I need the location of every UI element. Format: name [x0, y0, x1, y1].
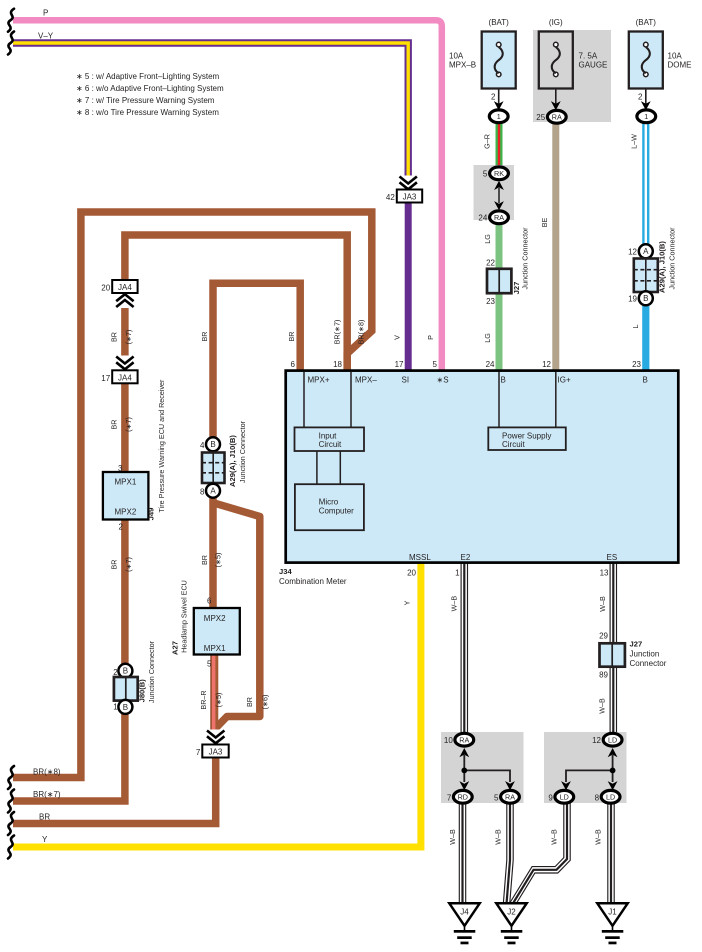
svg-text:∗ 8 : w/o Tire Pressure Warnin: ∗ 8 : w/o Tire Pressure Warning System: [76, 108, 219, 117]
junction branch line in right gray group: [566, 755, 615, 782]
svg-text:P: P: [43, 9, 48, 18]
svg-text:Y: Y: [403, 600, 412, 605]
svg-text:W–B: W–B: [493, 829, 502, 845]
circle B pin 4 of A29(A) J10(B): [206, 437, 220, 451]
svg-text:IG+: IG+: [558, 376, 571, 385]
junction connector J27 box top right column: [487, 269, 511, 293]
svg-text:13: 13: [600, 568, 609, 577]
svg-text:J1: J1: [608, 907, 617, 916]
gray highlight box around RK/RA connector pair: [474, 165, 515, 220]
svg-text:BR–R: BR–R: [199, 690, 208, 709]
label 29 J27: [599, 631, 608, 640]
label 7 JA3: [196, 748, 201, 757]
svg-text:24: 24: [486, 360, 495, 369]
wire LG from RA 24 down to J27 junction connector: [496, 224, 503, 270]
wire BR inner loop from junction column up across down to pin 6 MPX+: [213, 283, 300, 438]
svg-text:A29(A), J10(B): A29(A), J10(B): [228, 435, 237, 487]
svg-text:SI: SI: [402, 376, 410, 385]
connector oval RA 5: [501, 790, 520, 803]
label BR rotated inner right: [287, 332, 296, 342]
svg-text:5: 5: [433, 360, 438, 369]
label Y bottom: [42, 835, 48, 844]
label BR(*7) rotated near pin 18: [333, 320, 342, 345]
svg-text:BR(∗7): BR(∗7): [33, 790, 61, 799]
svg-text:3: 3: [118, 464, 123, 473]
label BR(*8) bottom: [33, 768, 61, 777]
wire W-B from LD 8 down to ground J1: [608, 803, 614, 904]
label W-B rotated to J2: [493, 829, 502, 845]
chevron arrows below 20 JA4: [115, 294, 134, 308]
wire BR(*7) loop from left break up through JA4 J49 J80 column across and down to pin 18 MPX-: [13, 235, 347, 801]
svg-text:BR: BR: [109, 332, 118, 342]
svg-text:20: 20: [101, 284, 110, 293]
svg-text:J49: J49: [147, 508, 156, 521]
svg-text:MSSL: MSSL: [409, 553, 431, 562]
svg-text:DOME: DOME: [668, 61, 692, 70]
internal line pin 6 to input circuit: [303, 372, 305, 427]
svg-text:20: 20: [407, 568, 416, 577]
label A27 rotated: [171, 641, 180, 655]
wire break symbol for BR(*7): [8, 790, 14, 813]
wire P (pink) from left break to pin 5 *S: [13, 20, 442, 370]
label 7 RD: [447, 793, 452, 802]
svg-text:Circuit: Circuit: [502, 440, 525, 449]
label W-B rotated to J4: [448, 829, 457, 845]
pin 6: [291, 360, 296, 369]
svg-text:2: 2: [491, 93, 496, 102]
wire BR(*6) branch bypassing A27: [214, 503, 260, 728]
svg-text:18: 18: [333, 360, 342, 369]
svg-text:22: 22: [486, 258, 495, 267]
label 8 LD: [595, 793, 600, 802]
svg-text:J4: J4: [460, 907, 469, 916]
label 2 J80: [113, 668, 118, 677]
wire break symbol for P: [8, 9, 14, 32]
svg-text:MPX2: MPX2: [115, 508, 137, 517]
svg-text:(BAT): (BAT): [489, 18, 510, 27]
svg-text:JA4: JA4: [118, 373, 132, 382]
label J34 Combination Meter: [279, 567, 347, 586]
svg-text:MPX2: MPX2: [204, 614, 226, 623]
svg-text:10A: 10A: [449, 52, 464, 61]
label W-B rotated to J1: [593, 829, 602, 845]
label pin 2 below DOME fuse: [638, 93, 643, 102]
internal lines input circuit to micro computer: [317, 451, 340, 484]
svg-text:GAUGE: GAUGE: [579, 61, 608, 70]
svg-text:42: 42: [386, 193, 395, 202]
label Headlamp Swivel ECU rotated: [179, 580, 188, 653]
label BR (*7) rotated lower: [109, 557, 133, 572]
svg-text:L: L: [631, 325, 640, 329]
svg-text:5: 5: [494, 793, 499, 802]
svg-text:BR: BR: [245, 697, 254, 707]
pin 5: [433, 360, 438, 369]
label A29(A) J10(B) rotated: [658, 241, 667, 293]
connector arrow down to LD 9: [561, 781, 571, 790]
label BE rotated: [540, 218, 549, 228]
label V-Y top: [38, 31, 54, 40]
label Junction Connector rotated left grid: [238, 420, 247, 483]
connector oval 1 below MPX-B fuse: [489, 110, 508, 123]
wire break symbol for BR(*8): [8, 766, 14, 789]
svg-text:LD: LD: [606, 793, 615, 802]
svg-text:Connector: Connector: [630, 659, 667, 668]
svg-text:BR: BR: [200, 555, 209, 565]
connector oval 1 below DOME fuse: [637, 110, 656, 123]
svg-text:∗ 6 : w/o Adaptive Front–Light: ∗ 6 : w/o Adaptive Front–Lighting System: [76, 84, 224, 93]
label pin 24 RA: [478, 213, 487, 222]
label pin 19 circle B: [628, 295, 637, 304]
svg-text:1: 1: [113, 703, 118, 712]
svg-text:RA: RA: [552, 113, 562, 122]
label 10A MPX-B: [449, 52, 476, 70]
svg-text:RA: RA: [494, 213, 504, 222]
svg-text:Computer: Computer: [319, 506, 354, 515]
label 5 RA: [494, 793, 499, 802]
svg-text:2: 2: [113, 668, 118, 677]
svg-text:17: 17: [101, 374, 110, 383]
label BR rotated inner left: [200, 332, 209, 342]
svg-text:7. 5A: 7. 5A: [579, 52, 598, 61]
svg-text:(∗7): (∗7): [124, 557, 133, 572]
svg-text:J27: J27: [630, 640, 643, 649]
svg-text:B: B: [643, 376, 648, 385]
connector box 20 JA4: [112, 280, 137, 293]
label pin 25: [536, 113, 545, 122]
svg-text:5: 5: [207, 659, 212, 668]
connector arrow below MPX-B fuse: [494, 101, 504, 110]
svg-text:MPX+: MPX+: [308, 376, 330, 385]
connector arrow below GAUGE fuse: [551, 101, 561, 110]
svg-text:G–R: G–R: [482, 134, 491, 149]
wire L blue from circle B 19 to pin 23 B: [642, 305, 649, 371]
svg-text:JA3: JA3: [403, 193, 417, 202]
svg-text:7: 7: [196, 748, 201, 757]
micro computer box: [295, 484, 364, 530]
svg-text:1: 1: [497, 112, 501, 121]
label 4 circle B: [200, 441, 205, 450]
wire BR-R(*5) from A27 pin 5 MPX1 down to chevron: [211, 655, 215, 732]
label 9 LD: [548, 793, 553, 802]
bottom pin numbers: [407, 568, 609, 577]
label pin 22 J27: [486, 258, 495, 267]
svg-text:W–B: W–B: [450, 596, 459, 612]
svg-text:LD: LD: [608, 735, 617, 744]
svg-text:23: 23: [632, 360, 641, 369]
label (IG): [549, 18, 563, 27]
svg-text:12: 12: [542, 360, 551, 369]
label Y rotated: [403, 600, 412, 605]
label L rotated: [631, 325, 640, 329]
svg-text:MPX1: MPX1: [115, 477, 137, 486]
label 2 J49: [119, 523, 124, 532]
junction connector grid A29(A) J10(B) left: [202, 453, 225, 484]
label P top: [43, 9, 48, 18]
svg-text:(BAT): (BAT): [636, 18, 657, 27]
svg-text:V: V: [392, 335, 401, 340]
pin 18: [333, 360, 342, 369]
svg-text:E2: E2: [461, 553, 471, 562]
label 42 for JA3: [386, 193, 395, 202]
label 1 J80: [113, 703, 118, 712]
svg-text:W–B: W–B: [448, 829, 457, 845]
junction connector grid A29(A) J10(B) right: [634, 259, 658, 293]
ground J4: [449, 903, 479, 944]
svg-text:4: 4: [200, 441, 205, 450]
svg-text:V–Y: V–Y: [38, 31, 54, 40]
svg-text:(∗5): (∗5): [214, 553, 223, 568]
label pin 5 RK: [483, 170, 488, 179]
svg-text:BR: BR: [200, 332, 209, 342]
label J27 rotated: [512, 282, 521, 295]
svg-text:∗S: ∗S: [437, 376, 449, 385]
label 20 for JA4: [101, 284, 110, 293]
connector arrow down to LD 8: [608, 781, 618, 790]
wire W-B from RA 5 down to ground J2: [503, 803, 513, 904]
circle B pin 19 of A29(A) J10(B) right: [639, 291, 653, 305]
svg-text:89: 89: [599, 670, 608, 679]
svg-text:7: 7: [447, 793, 452, 802]
svg-text:MPX1: MPX1: [204, 644, 226, 653]
svg-text:(∗7): (∗7): [124, 330, 133, 345]
label P rotated: [426, 335, 435, 340]
wire BR from 7 JA3 down and left to break: [13, 758, 216, 824]
label Junction Connector rotated right: [668, 227, 677, 290]
svg-text:10A: 10A: [668, 52, 683, 61]
connector oval RA 24: [490, 211, 509, 224]
label V rotated: [392, 335, 401, 340]
svg-text:8: 8: [595, 793, 600, 802]
label A29(A) J10(B) rotated left: [228, 435, 237, 487]
label BR(*7) bottom: [33, 790, 61, 799]
svg-text:Circuit: Circuit: [319, 440, 342, 449]
svg-text:J80(B): J80(B): [137, 679, 146, 703]
svg-text:J34: J34: [279, 567, 292, 576]
svg-text:A29(A), J10(B): A29(A), J10(B): [658, 241, 667, 293]
label BR (*5) rotated: [200, 553, 223, 568]
svg-text:29: 29: [599, 631, 608, 640]
connector arrow down to RD 7: [459, 781, 469, 790]
svg-text:B: B: [643, 294, 648, 303]
junction connector J80(B) box: [114, 677, 138, 701]
svg-text:RA: RA: [459, 735, 469, 744]
svg-text:BR(∗8): BR(∗8): [357, 320, 366, 345]
wire L-W blue with white stripe from connector 1 to circle A 12: [642, 122, 649, 245]
wire W-B from J27 junction connector to LD 12: [610, 666, 616, 733]
label BR-R (*5) rotated: [199, 690, 223, 709]
svg-text:J27: J27: [512, 282, 521, 295]
svg-text:(IG): (IG): [549, 18, 563, 27]
note list of option footnotes: [76, 72, 224, 117]
svg-text:LG: LG: [483, 234, 492, 244]
svg-text:Combination Meter: Combination Meter: [279, 577, 347, 586]
svg-text:L–W: L–W: [629, 134, 638, 149]
svg-text:BE: BE: [540, 218, 549, 228]
svg-text:BR(∗7): BR(∗7): [333, 320, 342, 345]
svg-text:10: 10: [444, 736, 453, 745]
svg-text:B: B: [123, 703, 128, 712]
circle B pin 1 of J80(B): [118, 700, 132, 714]
headlamp swivel ECU A27 box: [194, 608, 240, 655]
label BR(*8) rotated near pin 18: [357, 320, 366, 345]
svg-text:W–B: W–B: [597, 698, 606, 714]
gray highlight box around IG gauge fuse: [533, 30, 611, 122]
fuse 10A MPX-B (BAT): [482, 32, 516, 105]
svg-text:6: 6: [207, 597, 212, 606]
label L-W rotated: [629, 134, 638, 149]
label W-B rotated ES: [598, 596, 607, 612]
label 3 J49: [118, 464, 123, 473]
svg-text:MPX–: MPX–: [355, 376, 377, 385]
wire V (violet) from 42 JA3 to pin 17 SI: [405, 203, 412, 371]
label pin 23 J27: [486, 297, 495, 306]
connector oval LD 12: [603, 733, 622, 746]
label LG rotated upper: [483, 234, 492, 244]
fuse 7.5A GAUGE (IG): [539, 32, 573, 105]
wire BR(*5) from circle A down to A27 pin 6: [209, 497, 217, 608]
pin 24: [486, 360, 495, 369]
power supply circuit box: [488, 427, 566, 450]
label LG rotated lower: [483, 333, 492, 343]
svg-text:5: 5: [483, 170, 488, 179]
wire Y (yellow) from pin 20 MSSL down and left to break: [13, 563, 421, 847]
label pin 12 circle A: [628, 248, 637, 257]
circle B pin 2 of J80(B): [118, 664, 132, 678]
svg-text:(∗6): (∗6): [260, 695, 269, 710]
circle A pin 8 of A29(A) J10(B): [206, 484, 220, 498]
label 10 RA: [444, 736, 453, 745]
chevron arrows above 17 JA4: [115, 356, 134, 370]
wire BR(*8) outer brown loop from left break up across and down to pin 18: [13, 212, 372, 778]
svg-text:B: B: [210, 440, 215, 449]
connector oval RA 10: [455, 733, 474, 746]
svg-text:BR: BR: [39, 813, 50, 822]
label 5 A27: [207, 659, 212, 668]
wire break symbol for V-Y: [8, 32, 14, 55]
wire break symbol for BR: [8, 812, 14, 835]
svg-text:∗ 7 : w/ Tire Pressure Warning: ∗ 7 : w/ Tire Pressure Warning System: [76, 96, 215, 105]
wire BE from RA 25 to pin 12 IG+: [552, 123, 559, 370]
wire G-R green with red stripe from connector 1 to RK: [496, 122, 503, 167]
svg-text:Junction Connector: Junction Connector: [668, 227, 677, 290]
svg-text:RA: RA: [505, 793, 515, 802]
chevron arrows above 7 JA3: [206, 730, 225, 744]
svg-text:(∗7): (∗7): [124, 417, 133, 432]
connector oval RD 7: [453, 790, 472, 803]
svg-text:6: 6: [291, 360, 296, 369]
label J49 rotated: [147, 508, 156, 521]
svg-text:Y: Y: [42, 835, 48, 844]
svg-text:19: 19: [628, 295, 637, 304]
label W-B rotated E2: [450, 596, 459, 612]
wire W-B from pin 13 ES down to J27 junction connector: [610, 563, 616, 644]
svg-text:2: 2: [119, 523, 124, 532]
svg-text:BR: BR: [287, 332, 296, 342]
svg-text:BR: BR: [109, 420, 118, 430]
chevron arrows above 42 JA3: [399, 176, 418, 190]
svg-text:12: 12: [592, 736, 601, 745]
connector oval RK 5: [490, 167, 509, 180]
svg-text:RD: RD: [458, 793, 468, 802]
connector arrow up below RA 10: [459, 748, 469, 757]
label Junction Connector rotated J80: [147, 640, 156, 703]
label W-B rotated below J27: [597, 698, 606, 714]
fuse 10A DOME (BAT): [629, 32, 663, 105]
junction connector J27 box bottom right: [600, 643, 625, 666]
svg-text:RK: RK: [494, 169, 504, 178]
connector box 17 JA4: [112, 370, 137, 383]
pin 23: [632, 360, 641, 369]
svg-text:Junction Connector: Junction Connector: [147, 640, 156, 703]
label (BAT) DOME: [636, 18, 657, 27]
connector pair arrows and stem between RK and RA: [494, 181, 504, 211]
label 6 A27: [207, 597, 212, 606]
label 8 circle A: [200, 487, 205, 496]
svg-text:B: B: [501, 376, 506, 385]
connector box 42 JA3: [397, 190, 422, 203]
connector arrow down to RA 5: [505, 781, 515, 790]
label BR (*6) rotated: [245, 695, 270, 710]
svg-text:A: A: [210, 487, 216, 496]
label J80(B) rotated: [137, 679, 146, 703]
svg-text:JA3: JA3: [209, 748, 223, 757]
svg-text:ES: ES: [607, 553, 618, 562]
svg-text:(∗5): (∗5): [214, 693, 223, 708]
svg-text:8: 8: [200, 487, 205, 496]
svg-text:W–B: W–B: [593, 829, 602, 845]
label 10A DOME: [668, 52, 692, 70]
connector box 7 JA3: [202, 745, 228, 758]
svg-text:24: 24: [478, 213, 487, 222]
label Junction Connector rotated for J27: [521, 227, 530, 290]
wire W-B from pin 1 E2 down to RA 10: [461, 563, 467, 733]
svg-text:Junction Connector: Junction Connector: [521, 227, 530, 290]
label BR bottom: [39, 813, 50, 822]
svg-text:LG: LG: [483, 333, 492, 343]
combination meter J34 box: [286, 371, 679, 563]
svg-text:BR: BR: [109, 560, 118, 570]
label pin 2 below MPX-B fuse: [491, 93, 496, 102]
gray highlight box around RA/RD/RA connector group: [441, 732, 524, 803]
svg-text:1: 1: [644, 112, 648, 121]
wire V-Y (violet with yellow stripe) from left break to 42 JA3: [13, 43, 408, 177]
svg-text:23: 23: [486, 297, 495, 306]
svg-text:J2: J2: [507, 907, 516, 916]
svg-text:12: 12: [628, 248, 637, 257]
junction branch line in left gray group: [461, 755, 510, 782]
ground J2: [496, 903, 526, 944]
label 89 J27: [599, 670, 608, 679]
connector arrow below DOME fuse: [641, 101, 651, 110]
gray highlight box around LD/LD/LD connector group: [544, 732, 627, 803]
svg-text:Tire Pressure Warning ECU and: Tire Pressure Warning ECU and Receiver: [157, 379, 166, 512]
svg-text:BR(∗8): BR(∗8): [33, 768, 61, 777]
svg-text:MPX–B: MPX–B: [449, 61, 476, 70]
input circuit box: [295, 427, 365, 451]
svg-text:17: 17: [395, 360, 404, 369]
svg-text:LD: LD: [560, 793, 569, 802]
internal line pin 24 B to power supply circuit: [498, 372, 500, 427]
label BR (*7) rotated upper: [109, 330, 133, 345]
circle A pin 12 of A29(A) J10(B) right: [639, 244, 653, 258]
connector arrow up below LD 12: [608, 748, 618, 757]
svg-text:W–B: W–B: [550, 829, 559, 845]
svg-text:Junction Connector: Junction Connector: [238, 420, 247, 483]
connector oval LD 9: [555, 790, 574, 803]
svg-text:Headlamp Swivel ECU: Headlamp Swivel ECU: [179, 580, 188, 653]
label BR (*7) rotated mid: [109, 417, 133, 432]
meter bottom pin names: [409, 553, 617, 562]
